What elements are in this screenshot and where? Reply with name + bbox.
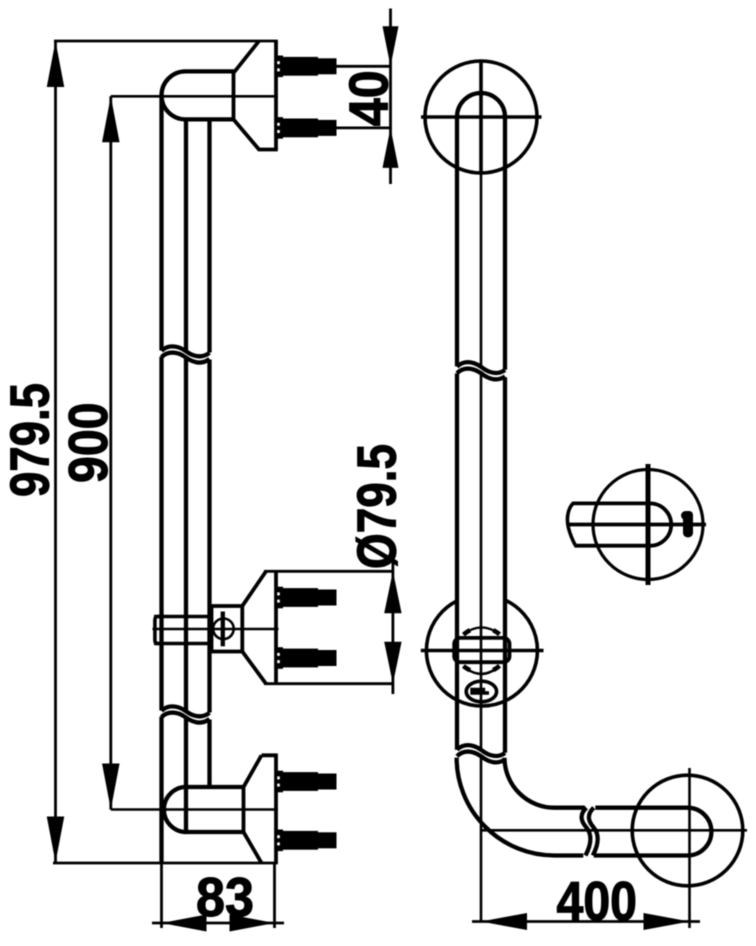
middle flange trapezoid [242,571,276,683]
vertical tube left edge [159,95,163,863]
middle flange collar [154,617,213,644]
horizontal tube break [582,808,598,856]
top flange centerline [111,95,278,98]
tube bend inner curve [505,758,555,808]
vertical tube centerline front view [480,172,483,922]
horizontal tube end cap [688,808,712,856]
middle flange bottom edge and extension [264,682,394,685]
bottom tube side view with end cap [164,787,244,832]
svg-text:83: 83 [196,866,254,928]
right tube break [457,745,505,762]
dimension 979.5 line [47,41,65,863]
bottom flange side view [244,755,278,863]
svg-text:40: 40 [337,70,399,126]
vertical tube right edge front view [503,117,507,753]
dimension 900 text [57,403,119,484]
bottom flange centerline [111,808,278,811]
horizontal tube centerline [481,829,747,832]
svg-text:400: 400 [557,870,638,932]
tube bend outer curve [457,758,555,856]
top flange bolt 1 [276,56,336,78]
bottom extension line 979.5 [53,862,278,865]
horizontal tube top edge [555,806,689,810]
dimension 40 text [337,70,399,126]
dimension dia79.5 text [346,444,408,569]
detail vertical crosshair [646,464,651,585]
detail tube stub [572,503,671,545]
horizontal tube bottom edge [555,853,689,857]
vertical tube left edge front view [455,117,459,750]
tube break lower [162,706,210,722]
middle flange screw oval front view [466,681,496,702]
middle flange clamp lower dome arc [463,666,499,674]
vertical tube middle edge [184,119,188,832]
middle flange centerline [153,628,279,631]
bottom flange bolt 2 [276,830,336,852]
detail flange circle [593,470,703,580]
detail set screw [681,511,693,538]
dimension 40 line [383,9,399,185]
middle flange bolt 1 [276,587,336,609]
middle flange screw boss [212,606,243,652]
dimension 83 extension lines [162,863,275,928]
svg-text:979.5: 979.5 [0,383,61,497]
top flange bolt 2 [276,117,336,139]
detail horizontal crosshair [567,523,706,527]
dimension dia79.5 line [384,563,401,694]
bottom flange bolt 1 [276,771,336,793]
top tube side view with end cap [162,71,236,119]
dimension 979.5 extension line top [54,40,278,43]
bottom right flange circle [632,768,743,928]
svg-text:Ø79.5: Ø79.5 [346,444,408,569]
tube break upper [162,346,210,362]
dimension 40 extension lines [337,66,392,128]
right tube upper break [457,362,505,379]
middle flange bolt 2 [276,647,336,669]
dimension 83 text [196,866,254,928]
top flange side view [234,41,278,150]
dimension 400 line [472,913,700,930]
dimension 83 line [152,915,284,932]
middle flange circle front view [421,600,544,706]
dimension 979.5 text [0,383,61,497]
top flange circle front view [421,61,542,173]
dimension 400 text [557,870,638,932]
middle flange top edge and extension [264,570,394,573]
middle flange clamp upper dome arc [463,627,499,634]
dimension 900 line [102,96,120,809]
vertical tube end cap front view [457,93,505,117]
svg-text:900: 900 [57,403,119,484]
middle flange clamp collar front view [454,638,509,662]
detail tube broken end [567,503,575,545]
vertical tube right edge [207,119,211,787]
